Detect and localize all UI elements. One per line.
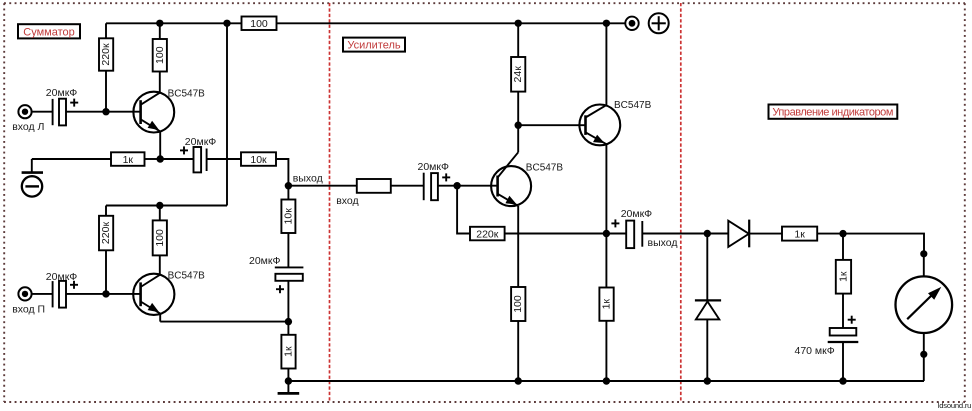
wire output to amplifier input <box>288 185 356 187</box>
resistor R9 24k <box>511 23 525 125</box>
terminal V+ <box>625 17 638 30</box>
resistor R3 1k <box>32 152 160 166</box>
wire C1 to Q1 base <box>66 111 140 113</box>
svg-text:100: 100 <box>154 46 166 64</box>
transistor Q1 BC547B <box>133 92 174 133</box>
svg-text:ldsound.ru: ldsound.ru <box>938 401 972 410</box>
resistor R2b 100 <box>153 206 167 275</box>
node Q1 emitter <box>157 155 164 162</box>
diode D1 <box>728 220 782 248</box>
label Amplifier box <box>343 38 405 52</box>
resistor R6 10k vertical <box>281 186 295 268</box>
svg-text:1к: 1к <box>123 154 134 166</box>
node ground rail left <box>285 377 292 384</box>
svg-text:20мкФ: 20мкФ <box>249 255 280 267</box>
svg-text:вход: вход <box>336 195 358 207</box>
capacitor C6 20mkF out <box>606 221 728 249</box>
wire C2 to Q2 base <box>66 293 140 295</box>
label Indicator-control box <box>769 105 898 119</box>
wire to meter top <box>843 234 924 254</box>
svg-text:10к: 10к <box>250 154 267 166</box>
ground rail <box>288 380 924 382</box>
ground symbol <box>278 381 300 393</box>
svg-text:20мкФ: 20мкФ <box>46 87 77 99</box>
node stage2 rail R2b top <box>156 202 163 209</box>
label C7 plus <box>848 316 856 324</box>
svg-text:20мкФ: 20мкФ <box>46 271 77 283</box>
node rail R9 top <box>515 20 522 27</box>
node Q2 base bias <box>102 290 109 297</box>
resistor R5 100 supply series <box>242 17 277 31</box>
resistor R10 220k feedback <box>470 227 606 241</box>
section divider amplifier <box>329 3 331 402</box>
svg-text:20мкФ: 20мкФ <box>185 136 216 148</box>
wire stage2 supply rail <box>106 205 227 207</box>
wire Q4 emitter down <box>605 144 607 287</box>
svg-text:BC547B: BC547B <box>168 271 206 282</box>
svg-text:Сумматор: Сумматор <box>23 26 74 38</box>
svg-text:100: 100 <box>154 229 166 247</box>
node rail R2 top <box>156 20 163 27</box>
wire Q3 collector <box>517 125 519 152</box>
resistor R14 1k vertical <box>836 234 851 328</box>
plus polarity symbol <box>649 13 669 33</box>
node emitter cap R7 <box>285 318 292 325</box>
input jack P <box>18 287 31 300</box>
resistor R1b 220k <box>99 206 113 294</box>
label C5 plus <box>442 173 450 181</box>
resistor R12 1k <box>599 288 613 382</box>
wire jack P to C2 <box>32 293 53 295</box>
node R12 rail <box>603 377 610 384</box>
svg-text:220к: 220к <box>476 228 499 240</box>
capacitor C7 470mkF <box>828 328 859 381</box>
svg-text:Усилитель: Усилитель <box>347 40 401 52</box>
svg-text:470 мкФ: 470 мкФ <box>795 345 835 357</box>
resistor R13 1k <box>782 227 843 241</box>
svg-text:BC547B: BC547B <box>614 100 652 111</box>
svg-text:1к: 1к <box>794 229 805 241</box>
node diode branch <box>704 230 711 237</box>
svg-text:220к: 220к <box>100 222 112 245</box>
transistor Q2 BC547B <box>133 274 174 315</box>
node C7 rail <box>839 377 846 384</box>
resistor R7 1k vertical <box>281 322 295 381</box>
resistor R4 10k <box>241 152 276 166</box>
node R14 top <box>839 230 846 237</box>
wire R4 to output node <box>276 159 288 186</box>
common minus terminal <box>22 173 43 197</box>
svg-text:BC547B: BC547B <box>168 88 206 99</box>
wire V+ rail left <box>106 22 242 24</box>
node Q3 base feedback <box>453 182 460 189</box>
svg-text:выход: выход <box>648 237 678 249</box>
resistor R11 100 <box>511 287 525 381</box>
node Q3 collector Q4 base <box>515 122 522 129</box>
node R11 rail <box>515 377 522 384</box>
label C4 plus <box>276 285 284 293</box>
svg-text:10к: 10к <box>282 208 294 225</box>
svg-text:Управление индикатором: Управление индикатором <box>772 107 893 119</box>
capacitor C5 20mkF <box>424 173 497 201</box>
wire stage2 feed vertical <box>226 23 228 205</box>
wire V+ rail right <box>277 22 626 24</box>
capacitor C2 20mkF <box>53 281 66 308</box>
svg-text:выход: выход <box>293 172 323 184</box>
transistor Q4 BC547B <box>579 105 620 146</box>
capacitor C1 20mkF <box>53 99 66 126</box>
wire Q3 emitter down <box>517 206 519 287</box>
svg-text:20мкФ: 20мкФ <box>418 161 449 173</box>
node D2 rail <box>704 377 711 384</box>
label Summator box <box>18 24 80 38</box>
wire jack L to C1 <box>32 111 53 113</box>
node Q4 emitter output <box>603 230 610 237</box>
meter M1 <box>896 250 953 381</box>
section divider indicator <box>680 3 682 402</box>
wire Q1 emitter down <box>159 131 161 159</box>
transistor Q3 BC547B <box>491 152 531 206</box>
wire node to Q4 base <box>518 124 585 126</box>
node rail Q4 collector <box>603 20 610 27</box>
svg-text:1к: 1к <box>283 346 295 357</box>
capacitor C4 20mkF vertical <box>275 267 304 321</box>
svg-text:1к: 1к <box>601 299 613 310</box>
label C2 plus <box>70 281 78 289</box>
svg-text:BC547B: BC547B <box>526 162 564 173</box>
label C6 plus <box>611 219 619 227</box>
wire Q2 emitter elbow <box>159 314 161 322</box>
label C3 plus <box>180 146 188 154</box>
svg-text:вход П: вход П <box>12 303 45 315</box>
wire to common terminal <box>31 159 33 173</box>
node summator output <box>285 182 292 189</box>
resistor R2 100 <box>153 23 167 92</box>
input jack L <box>18 105 31 118</box>
svg-text:20мкФ: 20мкФ <box>621 208 652 220</box>
svg-text:1к: 1к <box>837 271 849 282</box>
wire Q2 emitter run <box>160 321 288 323</box>
diode D2 vertical <box>695 234 721 382</box>
capacitor C3 20mkF <box>160 147 241 172</box>
svg-text:220к: 220к <box>100 43 112 66</box>
node Q1 base bias <box>102 108 109 115</box>
svg-text:100: 100 <box>512 295 524 313</box>
wire feedback down <box>457 186 470 234</box>
resistor R1 220k <box>99 23 113 111</box>
label C1 plus <box>70 99 78 107</box>
node rail stage2 feed <box>223 20 230 27</box>
resistor R8 amp input <box>357 179 424 193</box>
wire Q4 collector up <box>605 23 607 105</box>
svg-text:вход Л: вход Л <box>12 121 44 133</box>
node stage2 rail mid <box>159 204 161 206</box>
svg-text:100: 100 <box>250 18 268 30</box>
svg-text:24к: 24к <box>512 66 524 83</box>
